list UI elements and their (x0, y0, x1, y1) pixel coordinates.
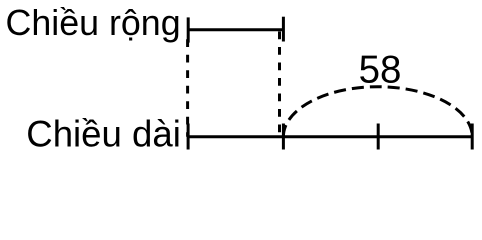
node: bottom bar tick 4 (471, 124, 474, 150)
svg-text:Chiều rộng: Chiều rộng (6, 3, 181, 43)
wire: bottom bar horizontal line (length = 3 parts) (188, 135, 472, 138)
svg-text:58: 58 (359, 48, 402, 91)
brace: dashed half-ellipse arc spanning 58 (283, 87, 472, 137)
wire: right dashed guide line (278, 32, 281, 137)
wire: top bar horizontal line (width = 1 part) (188, 28, 283, 31)
wire: left dashed guide line (186, 32, 189, 137)
node: top bar left tick (187, 17, 190, 42)
node: top bar right tick (282, 17, 285, 42)
node: bottom bar tick 3 (377, 124, 380, 150)
node: bottom bar tick 1 (187, 124, 190, 150)
svg-text:Chiều dài: Chiều dài (26, 114, 181, 155)
node: bottom bar tick 2 (282, 124, 285, 150)
